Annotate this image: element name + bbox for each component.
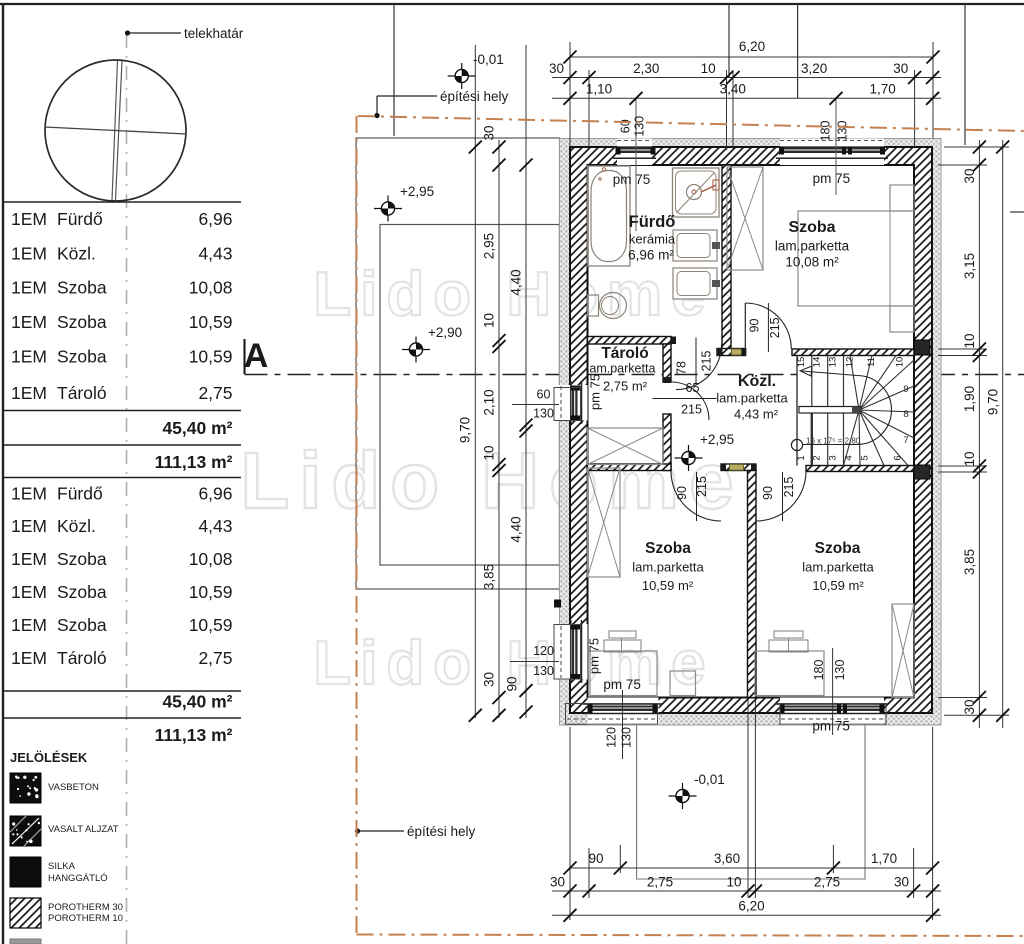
svg-text:2: 2 bbox=[812, 455, 823, 460]
svg-text:30: 30 bbox=[550, 875, 565, 890]
svg-text:215: 215 bbox=[695, 476, 709, 497]
svg-text:2,75: 2,75 bbox=[198, 383, 232, 403]
epitesi hely orange boundary bottom line bbox=[357, 935, 1024, 937]
svg-text:lam.parketta: lam.parketta bbox=[632, 560, 704, 575]
stair walk line with arrow bbox=[802, 371, 892, 445]
nightstand top bbox=[890, 185, 914, 211]
section line A-A left segment bbox=[245, 374, 798, 376]
circle chord near-vertical 1 bbox=[112, 61, 118, 201]
section marker A vertical line bbox=[244, 339, 246, 374]
dim line 6,20 bottom bbox=[552, 914, 941, 916]
svg-text:Szoba: Szoba bbox=[57, 549, 107, 569]
svg-text:215: 215 bbox=[768, 317, 782, 338]
window lower-left sill box bbox=[566, 704, 658, 725]
svg-text:10,08: 10,08 bbox=[189, 549, 233, 569]
wardrobe lower-left szoba tall X bbox=[588, 468, 621, 577]
svg-text:Tároló: Tároló bbox=[601, 345, 648, 362]
wardrobe lower-right szoba with X bbox=[892, 604, 914, 698]
svg-text:3,15: 3,15 bbox=[962, 253, 977, 279]
svg-text:építési hely: építési hely bbox=[407, 824, 476, 839]
epitesi hely orange boundary top line bbox=[358, 116, 1024, 131]
window furdo top 60x130 bbox=[617, 139, 652, 166]
stair bottom wall bbox=[806, 466, 914, 472]
svg-text:pm 75: pm 75 bbox=[613, 172, 651, 187]
svg-text:2,75: 2,75 bbox=[647, 875, 673, 890]
washbasin 1 bbox=[673, 230, 717, 261]
svg-text:Szoba: Szoba bbox=[57, 347, 107, 367]
svg-text:telekhatár: telekhatár bbox=[184, 26, 244, 41]
svg-text:12: 12 bbox=[844, 357, 855, 368]
exterior insulation stipple ring bbox=[560, 139, 942, 726]
nightstand lower-left bbox=[670, 671, 696, 696]
window top szoba 180x130 bbox=[780, 139, 884, 166]
svg-text:POROTHERM 30: POROTHERM 30 bbox=[48, 902, 123, 913]
svg-text:15: 15 bbox=[796, 357, 807, 368]
corner block right wall mid bbox=[914, 340, 930, 355]
window lower-right sill box bbox=[780, 704, 886, 725]
dim chain right detail 30/3,15/10/1,90/10/3,85/30 bbox=[978, 140, 980, 728]
svg-text:90: 90 bbox=[761, 486, 775, 500]
svg-text:6,96 m²: 6,96 m² bbox=[628, 248, 674, 263]
dim chain left detail 30/2,95/10/2,10/10/3,85/30 bbox=[498, 140, 500, 718]
window centerline lower-left bottom bbox=[622, 690, 624, 759]
stair boundary left line bbox=[796, 356, 798, 466]
svg-text:1EM: 1EM bbox=[11, 383, 47, 403]
svg-text:4,43: 4,43 bbox=[198, 244, 232, 264]
epitesi hely bottom leader bbox=[360, 830, 404, 832]
svg-text:30: 30 bbox=[962, 699, 977, 714]
svg-text:10,59 m²: 10,59 m² bbox=[642, 578, 694, 593]
level marker +2,95 kozl bbox=[675, 457, 703, 459]
svg-text:130: 130 bbox=[633, 116, 647, 137]
window tarolo left wall 60x130 bbox=[554, 385, 588, 421]
svg-text:1,10: 1,10 bbox=[586, 82, 612, 97]
partition wall between lower bedrooms bbox=[748, 471, 757, 698]
svg-text:3,60: 3,60 bbox=[714, 851, 740, 866]
svg-text:130: 130 bbox=[836, 121, 850, 142]
svg-text:Szoba: Szoba bbox=[645, 540, 691, 557]
svg-text:1EM: 1EM bbox=[11, 312, 47, 332]
svg-text:30: 30 bbox=[893, 61, 908, 76]
svg-text:A: A bbox=[244, 337, 269, 375]
frame vertical x797 bbox=[797, 4, 799, 98]
svg-text:1EM: 1EM bbox=[11, 615, 47, 635]
dim chain right total 9,70 bbox=[1002, 140, 1004, 728]
svg-text:10,59: 10,59 bbox=[189, 312, 233, 332]
svg-text:pm 75: pm 75 bbox=[603, 677, 641, 692]
svg-text:60: 60 bbox=[537, 388, 551, 402]
circle chord near-vertical 2 bbox=[116, 61, 123, 200]
dim line 1,10/3,40/1,70 top bbox=[552, 97, 941, 99]
top border line bbox=[0, 3, 1024, 5]
svg-text:pm 75: pm 75 bbox=[813, 171, 851, 186]
washbasin 2 bbox=[673, 268, 717, 299]
svg-text:45,40 m²: 45,40 m² bbox=[162, 418, 232, 438]
stair start circle bbox=[791, 439, 802, 450]
dim extension lines bottom bbox=[569, 727, 571, 920]
legend symbol silka bbox=[10, 857, 41, 887]
epitesi hely orange boundary left vertical bbox=[356, 116, 358, 933]
left border line bbox=[2, 4, 4, 944]
svg-text:7: 7 bbox=[903, 435, 908, 446]
bathtub tap bbox=[602, 168, 606, 172]
section line A-A right segment bbox=[932, 374, 1024, 376]
svg-text:3,40: 3,40 bbox=[720, 82, 746, 97]
svg-text:30: 30 bbox=[482, 672, 497, 687]
small block left wall exterior bbox=[554, 600, 561, 608]
table1 separator rule bbox=[3, 410, 241, 412]
svg-text:6,20: 6,20 bbox=[739, 39, 765, 54]
svg-text:Szoba: Szoba bbox=[815, 540, 861, 557]
svg-text:10: 10 bbox=[701, 61, 716, 76]
svg-text:30: 30 bbox=[482, 125, 497, 140]
svg-text:1EM: 1EM bbox=[11, 209, 47, 229]
svg-text:90: 90 bbox=[588, 851, 603, 866]
svg-text:78: 78 bbox=[675, 361, 689, 375]
svg-text:90: 90 bbox=[505, 676, 520, 691]
stair risers straight flights bbox=[811, 356, 813, 407]
site orientation circle bbox=[45, 60, 186, 201]
svg-text:9: 9 bbox=[903, 384, 908, 395]
level marker +2,95 terrace bbox=[374, 208, 402, 210]
svg-text:2,10: 2,10 bbox=[482, 389, 497, 415]
svg-text:8: 8 bbox=[903, 409, 908, 420]
svg-text:10,08 m²: 10,08 m² bbox=[785, 255, 839, 270]
table2 rule 2 bbox=[3, 717, 241, 719]
door top szoba leaf bbox=[744, 303, 746, 349]
svg-text:65: 65 bbox=[686, 381, 700, 395]
svg-text:1EM: 1EM bbox=[11, 483, 47, 503]
svg-text:14: 14 bbox=[812, 357, 823, 368]
level marker -0,01 top bbox=[448, 75, 476, 77]
svg-text:45,40 m²: 45,40 m² bbox=[162, 692, 232, 712]
svg-text:6,20: 6,20 bbox=[738, 899, 764, 914]
door jamb bottom right bbox=[751, 464, 756, 471]
svg-text:POROTHERM 10: POROTHERM 10 bbox=[48, 913, 123, 924]
svg-text:lam.parketta: lam.parketta bbox=[775, 239, 850, 254]
svg-text:1,70: 1,70 bbox=[869, 82, 895, 97]
svg-text:Szoba: Szoba bbox=[57, 615, 107, 635]
table1 rule 2 bbox=[3, 444, 241, 446]
svg-text:JELÖLÉSEK: JELÖLÉSEK bbox=[10, 750, 88, 765]
window centerline lower-right bottom bbox=[832, 648, 834, 735]
frame vertical x965 bbox=[964, 4, 966, 145]
wardrobe top szoba with X bbox=[727, 167, 763, 270]
circle chord near-horizontal bbox=[45, 127, 187, 134]
svg-text:pm 75: pm 75 bbox=[587, 638, 602, 674]
window lower-left szoba bottom 120x130 bbox=[588, 698, 659, 726]
partition wall under top szoba bbox=[792, 349, 914, 356]
svg-text:1EM: 1EM bbox=[11, 278, 47, 298]
svg-text:1EM: 1EM bbox=[11, 549, 47, 569]
svg-text:90: 90 bbox=[675, 486, 689, 500]
window centerline furdo top bbox=[635, 99, 637, 231]
legend symbol porotherm hatch bbox=[10, 898, 41, 928]
wall stub kozl top with jambs bbox=[717, 349, 746, 356]
svg-text:10: 10 bbox=[894, 357, 905, 368]
dim line 90/3,60/1,70 bottom bbox=[570, 867, 933, 869]
partition wall furdo bottom / tarolo top bbox=[588, 337, 672, 345]
svg-text:VASBETON: VASBETON bbox=[48, 782, 99, 793]
level marker +2,90 terrace bbox=[402, 349, 430, 351]
stair winder radial lines bbox=[850, 356, 859, 411]
svg-text:Fürdő: Fürdő bbox=[57, 483, 103, 503]
svg-text:lam.parketta: lam.parketta bbox=[802, 560, 874, 575]
lower patio rectangle bbox=[637, 724, 865, 879]
svg-text:9,70: 9,70 bbox=[986, 389, 1001, 415]
svg-text:2,75: 2,75 bbox=[814, 875, 840, 890]
telekhatar leader dot bbox=[125, 30, 130, 35]
svg-text:pm 75: pm 75 bbox=[812, 719, 850, 734]
svg-text:1EM: 1EM bbox=[11, 582, 47, 602]
dim line 30/2,30/10/3,20/30 top bbox=[552, 77, 941, 79]
svg-text:4,43 m²: 4,43 m² bbox=[734, 407, 779, 422]
svg-text:11: 11 bbox=[866, 357, 877, 367]
svg-text:6,96: 6,96 bbox=[198, 483, 232, 503]
stair handrail bar bbox=[799, 407, 861, 414]
svg-text:10: 10 bbox=[482, 313, 497, 328]
svg-text:16 x 17⁵ = 2,80: 16 x 17⁵ = 2,80 bbox=[806, 437, 861, 446]
legend symbol vasalt aljzat bbox=[10, 816, 41, 846]
legend symbol partial gray bbox=[10, 939, 41, 944]
door tarolo swing arc 65/215 bbox=[671, 382, 709, 420]
svg-text:1EM: 1EM bbox=[11, 244, 47, 264]
shower tray bbox=[673, 168, 720, 217]
toilet bbox=[588, 295, 599, 316]
door lower-left szoba swing arc 90/215 bbox=[671, 471, 721, 521]
table1 bottom rule bbox=[3, 477, 241, 479]
svg-text:HANGGÁTLÓ: HANGGÁTLÓ bbox=[48, 873, 108, 884]
dim extension lines right bbox=[944, 146, 1009, 148]
svg-text:1: 1 bbox=[796, 455, 807, 460]
svg-text:10: 10 bbox=[962, 333, 977, 348]
svg-text:3,85: 3,85 bbox=[482, 564, 497, 590]
svg-text:10: 10 bbox=[482, 445, 497, 460]
area table 1 top rule bbox=[3, 201, 241, 203]
svg-text:lam.parketta: lam.parketta bbox=[716, 391, 788, 406]
svg-text:Közl.: Közl. bbox=[57, 516, 96, 536]
svg-text:1,90: 1,90 bbox=[962, 386, 977, 412]
svg-text:3: 3 bbox=[828, 455, 839, 460]
svg-text:1EM: 1EM bbox=[11, 516, 47, 536]
exterior wall hatch ring bbox=[570, 147, 932, 713]
svg-text:10,59: 10,59 bbox=[189, 582, 233, 602]
svg-text:-0,01: -0,01 bbox=[473, 52, 504, 67]
svg-text:6,96: 6,96 bbox=[198, 209, 232, 229]
level marker -0,01 bottom bbox=[669, 795, 697, 797]
svg-text:Közl.: Közl. bbox=[57, 244, 96, 264]
svg-text:30: 30 bbox=[962, 168, 977, 183]
svg-text:Szoba: Szoba bbox=[57, 582, 107, 602]
epitesi hely top leader bbox=[377, 95, 437, 97]
bathtub bbox=[588, 166, 631, 266]
chair lower-left bbox=[604, 640, 641, 652]
dim line 6,20 top bbox=[570, 56, 933, 58]
partition wall tarolo right upper bbox=[663, 344, 671, 382]
terrace inner rectangle bbox=[380, 225, 560, 566]
svg-text:3,20: 3,20 bbox=[801, 61, 827, 76]
svg-text:130: 130 bbox=[620, 727, 634, 748]
frame vertical x729 bbox=[728, 4, 730, 78]
svg-text:6: 6 bbox=[892, 455, 903, 460]
desk lower-right szoba bbox=[755, 651, 824, 696]
svg-text:30: 30 bbox=[549, 61, 564, 76]
svg-text:Szoba: Szoba bbox=[57, 312, 107, 332]
telekhatar dash-dot property line vertical bbox=[126, 34, 128, 944]
tarolo door jamb block bbox=[663, 377, 671, 383]
svg-text:30: 30 bbox=[894, 875, 909, 890]
door furdo swing arc 78/215 bbox=[676, 344, 722, 390]
svg-text:építési hely: építési hely bbox=[440, 89, 509, 104]
svg-text:1EM: 1EM bbox=[11, 648, 47, 668]
svg-text:2,95: 2,95 bbox=[482, 233, 497, 259]
door threshold olive top bbox=[732, 349, 743, 355]
telekhatar leader line bbox=[130, 32, 181, 34]
svg-text:pm 75: pm 75 bbox=[588, 374, 603, 410]
svg-text:+2,90: +2,90 bbox=[428, 325, 462, 340]
svg-text:Szoba: Szoba bbox=[57, 278, 107, 298]
furdo door jamb block bbox=[671, 337, 676, 345]
svg-text:111,13 m²: 111,13 m² bbox=[155, 725, 233, 745]
svg-text:Szoba: Szoba bbox=[788, 219, 835, 236]
svg-text:-0,01: -0,01 bbox=[694, 772, 725, 787]
partition wall tarolo bottom bbox=[588, 464, 672, 471]
svg-text:215: 215 bbox=[700, 351, 714, 372]
svg-text:kerámia: kerámia bbox=[629, 232, 676, 247]
svg-text:Tároló: Tároló bbox=[57, 383, 107, 403]
svg-text:4,40: 4,40 bbox=[509, 269, 524, 295]
bed top szoba bbox=[798, 211, 914, 306]
svg-text:10,59: 10,59 bbox=[189, 615, 233, 635]
dim chain left 4,40/10/4,40 bbox=[525, 45, 527, 718]
svg-text:215: 215 bbox=[782, 477, 796, 498]
svg-text:Közl.: Közl. bbox=[738, 373, 776, 390]
svg-text:SILKA: SILKA bbox=[48, 861, 76, 872]
svg-text:1,70: 1,70 bbox=[871, 851, 897, 866]
door jamb top right bbox=[741, 348, 746, 355]
svg-text:lam.parketta: lam.parketta bbox=[587, 362, 656, 376]
corner block right wall lower bbox=[914, 465, 930, 479]
svg-text:130: 130 bbox=[833, 660, 847, 681]
svg-text:130: 130 bbox=[533, 407, 554, 421]
svg-text:2,75 m²: 2,75 m² bbox=[603, 379, 648, 394]
terrace outer rectangle bbox=[356, 138, 560, 589]
svg-text:3,85: 3,85 bbox=[962, 549, 977, 575]
chair lower-right bbox=[769, 640, 808, 652]
svg-text:10,08: 10,08 bbox=[189, 278, 233, 298]
svg-text:10,59: 10,59 bbox=[189, 347, 233, 367]
desk lower-left szoba bbox=[590, 651, 657, 696]
nightstand bottom bbox=[890, 306, 914, 332]
svg-text:10,59 m²: 10,59 m² bbox=[812, 578, 864, 593]
window lower-right szoba bottom 180x130 bbox=[780, 698, 884, 726]
svg-text:120: 120 bbox=[605, 727, 619, 748]
door threshold olive bottom bbox=[730, 464, 744, 470]
partition wall furdo/szoba vertical bbox=[722, 165, 731, 349]
dim chain left total 9,70 bbox=[474, 45, 476, 718]
svg-text:130: 130 bbox=[533, 664, 554, 678]
frame vertical x394 bbox=[393, 4, 395, 136]
svg-text:+2,95: +2,95 bbox=[400, 184, 434, 199]
svg-text:120: 120 bbox=[533, 644, 554, 658]
svg-text:9,70: 9,70 bbox=[458, 417, 473, 443]
legend symbol vasbeton bbox=[10, 773, 41, 803]
svg-text:4,40: 4,40 bbox=[509, 516, 524, 542]
svg-text:180: 180 bbox=[819, 121, 833, 142]
door lower-right szoba swing arc 90/215 bbox=[756, 471, 806, 521]
svg-text:215: 215 bbox=[681, 403, 702, 417]
svg-text:10: 10 bbox=[726, 875, 741, 890]
svg-text:5: 5 bbox=[859, 455, 870, 460]
door jamb top left bbox=[717, 348, 723, 355]
svg-text:Fürdő: Fürdő bbox=[57, 209, 103, 229]
svg-text:+2,95: +2,95 bbox=[700, 432, 734, 447]
wardrobe tarolo with X bbox=[588, 428, 664, 465]
dim extension lines top bbox=[569, 42, 571, 147]
partition wall tarolo right lower bbox=[663, 414, 671, 471]
svg-text:4: 4 bbox=[844, 455, 855, 460]
door jamb bottom left bbox=[721, 464, 726, 471]
svg-text:10: 10 bbox=[962, 451, 977, 466]
svg-text:2,75: 2,75 bbox=[198, 648, 232, 668]
shower mixer bbox=[701, 185, 716, 192]
window centerline top szoba bbox=[835, 99, 837, 195]
table2 separator rule bbox=[3, 690, 241, 692]
svg-text:1EM: 1EM bbox=[11, 347, 47, 367]
svg-text:4,43: 4,43 bbox=[198, 516, 232, 536]
window lower-left szoba left wall 120x130 bbox=[554, 624, 588, 680]
door top szoba swing arc 90/215 bbox=[745, 303, 791, 349]
svg-text:180: 180 bbox=[812, 660, 826, 681]
svg-text:13: 13 bbox=[828, 357, 839, 368]
svg-text:90: 90 bbox=[747, 319, 761, 333]
dim line 30/2,75/10/2,75/30 bottom bbox=[552, 890, 941, 892]
wall segment kozl bottom with threshold bbox=[721, 464, 756, 471]
svg-text:2,30: 2,30 bbox=[633, 61, 659, 76]
svg-text:111,13 m²: 111,13 m² bbox=[155, 452, 233, 472]
svg-text:Tároló: Tároló bbox=[57, 648, 107, 668]
svg-text:VASALT ALJZAT: VASALT ALJZAT bbox=[48, 824, 119, 835]
